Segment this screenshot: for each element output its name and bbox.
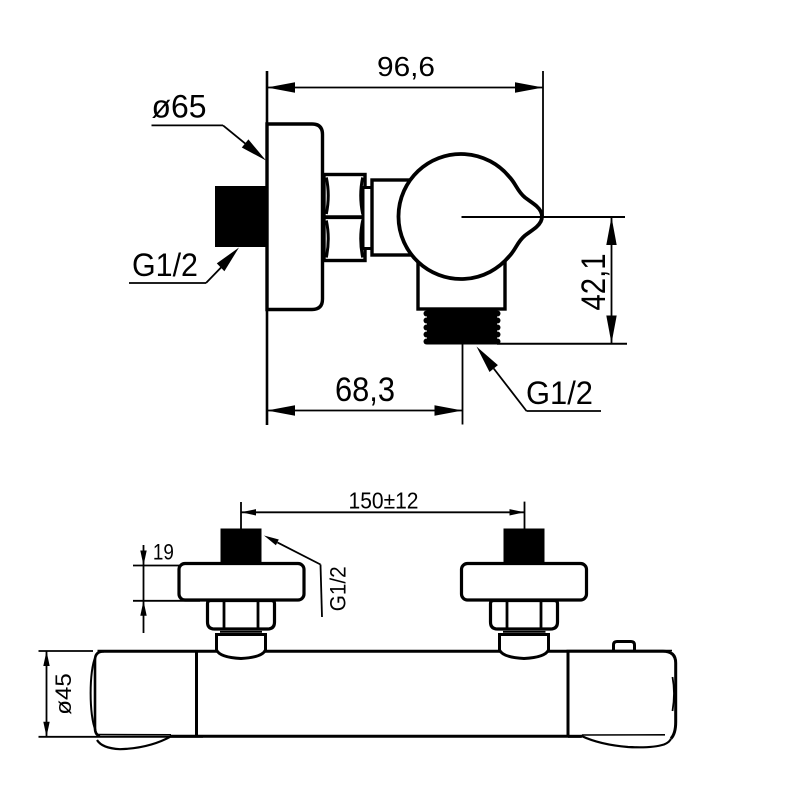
- left end cap face arc: [91, 657, 96, 730]
- left bottom wedge: [97, 736, 172, 749]
- svg-text:19: 19: [153, 540, 174, 565]
- label G1/2 left with leader: [129, 247, 239, 283]
- outlet body below knob: [418, 245, 505, 309]
- right end cap fill: [568, 651, 676, 736]
- valve body block (side view): [372, 180, 428, 255]
- dimension ø45: [39, 651, 204, 737]
- svg-text:150±12: 150±12: [349, 488, 419, 514]
- left escutcheon flange (front view): [179, 564, 304, 601]
- svg-text:G1/2: G1/2: [132, 247, 198, 283]
- control knob circle with pointer tip: [398, 154, 542, 279]
- dimension 68,3: [267, 345, 463, 425]
- dimension 96,6: [267, 51, 543, 217]
- right bottom wedge top line: [582, 734, 665, 736]
- left bowl connector: [217, 635, 266, 659]
- left hex nut (front view): [208, 601, 275, 630]
- knob center line: [462, 216, 626, 218]
- right hex nut (front view): [491, 601, 558, 630]
- bar bottom edge (thick between wedge tips): [171, 735, 581, 738]
- right bottom wedge: [581, 736, 671, 748]
- svg-text:G1/2: G1/2: [526, 375, 593, 411]
- left junction line: [195, 651, 198, 737]
- svg-text:42,1: 42,1: [575, 254, 613, 311]
- right escutcheon flange (front view): [462, 564, 587, 601]
- left inlet black square (front view): [221, 529, 262, 564]
- left bottom wedge top line: [98, 734, 171, 736]
- right washer line: [503, 631, 546, 633]
- threaded outlet G1/2 (black, side view): [424, 309, 501, 345]
- svg-text:ø65: ø65: [152, 89, 207, 125]
- right bowl connector: [500, 635, 549, 659]
- escutcheon flange (side view): [267, 124, 323, 310]
- right inlet black square (front view): [504, 529, 545, 564]
- label ø65 with leader: [152, 89, 267, 161]
- svg-text:96,6: 96,6: [377, 51, 435, 82]
- left washer line: [220, 631, 262, 633]
- outlet bottom reference line: [497, 343, 627, 345]
- bar body fill (front view): [95, 651, 675, 737]
- dimension 19: [133, 540, 200, 633]
- inlet connector G1/2 black square (side view): [215, 186, 267, 247]
- dimension 150±12: [241, 488, 525, 529]
- svg-text:ø45: ø45: [51, 673, 76, 715]
- dimension 42,1: [575, 217, 617, 344]
- left end cap outline: [95, 651, 104, 736]
- hex nut (side view): [324, 175, 365, 261]
- label G1/2 bottom-right with leader: [477, 347, 602, 412]
- right end cap bottom edge thick stub: [568, 735, 582, 738]
- svg-text:G1/2: G1/2: [326, 566, 351, 611]
- wall line: [266, 71, 269, 425]
- svg-text:68,3: 68,3: [335, 371, 395, 409]
- stub between nut and valve body: [363, 188, 373, 249]
- button on top of right cap: [614, 642, 635, 652]
- bar top edge: [98, 650, 673, 653]
- right end cap outline: [568, 651, 676, 738]
- right end cap inner arc: [673, 677, 675, 711]
- label G1/2 (front view) with leader: [264, 536, 351, 618]
